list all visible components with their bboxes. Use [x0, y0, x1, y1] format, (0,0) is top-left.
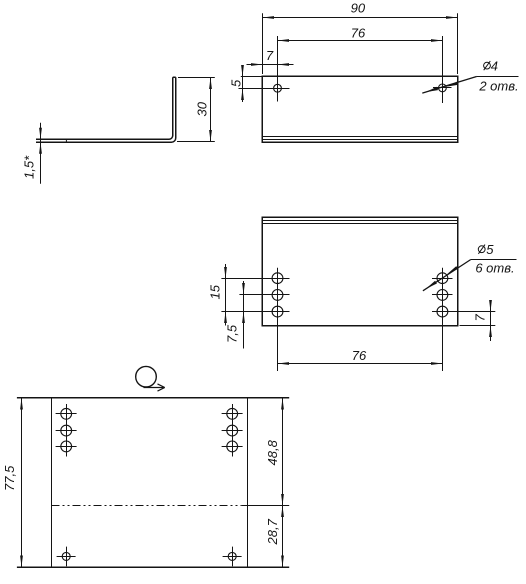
- dimension 77,5 arrow up: [20, 398, 23, 410]
- leader d4 arrow at end: [426, 87, 439, 92]
- hole right d4: [439, 84, 447, 92]
- svg-text:76: 76: [351, 26, 366, 41]
- hole left row2 d5: [272, 290, 283, 301]
- flat left col row2 centerline horizontal: [56, 430, 77, 432]
- dimension 77,5 arrow down: [20, 556, 23, 568]
- dimension 7 line: [247, 64, 294, 66]
- right row1 centerline horizontal: [432, 278, 453, 280]
- dimension 76 arrow right bottom: [431, 362, 443, 365]
- dimension 76 arrow left: [278, 39, 290, 42]
- leader d5 line: [423, 260, 471, 291]
- flat bottom left crosshair: [57, 547, 76, 567]
- left column centerline vertical: [277, 268, 279, 371]
- flat bottom right crosshair: [223, 547, 242, 567]
- leader d4 line: [422, 77, 476, 94]
- svg-text:30: 30: [195, 101, 210, 116]
- svg-text:4: 4: [491, 59, 498, 74]
- hole left centerline vertical: [277, 36, 279, 102]
- dimension 5 arrow down: [241, 65, 244, 77]
- dimension 15 line: [225, 264, 227, 326]
- flat hole left col row1 d5: [61, 408, 72, 419]
- strip joint tick: [65, 139, 67, 142]
- leader d5 arrow at hole: [447, 266, 458, 274]
- hole right row2 d5: [437, 290, 448, 301]
- leader d4 arrow at hole: [446, 82, 459, 87]
- svg-text:28,7: 28,7: [265, 518, 280, 545]
- dimension 5 line: [242, 67, 244, 102]
- dimension 5 arrow up: [241, 89, 244, 101]
- flat bottom edge: [17, 566, 289, 568]
- flat left col row1 centerline horizontal: [56, 413, 77, 415]
- dimension 7 line right: [490, 300, 492, 341]
- hole right row1 d5: [437, 273, 448, 284]
- fold phantom line: [52, 505, 242, 507]
- svg-text:6 отв.: 6 отв.: [475, 261, 514, 276]
- left row1 centerline horizontal: [221, 278, 289, 280]
- hole left row1 d5: [272, 273, 283, 284]
- dimension 7 extension bottom right: [460, 325, 496, 327]
- hole right centerline horizontal: [433, 87, 452, 89]
- flat top edge: [17, 397, 289, 399]
- svg-text:5: 5: [229, 79, 244, 87]
- dimension 7,5 arrow up: [242, 312, 245, 324]
- flat right col row3 centerline horizontal: [222, 446, 243, 448]
- svg-text:76: 76: [352, 348, 367, 363]
- top view plate outline: [262, 76, 458, 142]
- svg-text:90: 90: [351, 1, 366, 16]
- flat left edge dimension 77,5 line: [21, 398, 23, 568]
- svg-text:7: 7: [266, 48, 274, 63]
- leader d5 shelf: [471, 259, 517, 261]
- dimension 1,5* line: [40, 123, 42, 184]
- dimension 1,5* arrow down: [39, 128, 42, 140]
- right row2 centerline horizontal: [432, 294, 453, 296]
- flat right col centerline vertical: [232, 404, 234, 457]
- dimension 15 arrow down: [224, 267, 227, 279]
- flat left col row3 centerline horizontal: [56, 446, 77, 448]
- dimension 30 arrow up: [209, 78, 212, 90]
- dimension 90 line: [263, 17, 458, 19]
- dimension 90 extension right: [457, 13, 459, 74]
- side view L-profile outline: [36, 77, 176, 142]
- label d4 diameter symbol: [484, 62, 491, 69]
- flat hole right col row3 d5: [227, 441, 238, 452]
- flat bend line right: [247, 398, 249, 568]
- flat right col row1 centerline horizontal: [222, 413, 243, 415]
- flat hole right col row1 d5: [227, 408, 238, 419]
- dimension 90 arrow left: [263, 16, 275, 19]
- dimension 7,5 arrow down: [242, 283, 245, 295]
- svg-text:2 отв.: 2 отв.: [478, 78, 518, 93]
- flat hole left col row2 d5: [61, 425, 72, 436]
- dimension 76 arrow left bottom: [278, 362, 290, 365]
- unfold symbol arrow: [144, 384, 165, 391]
- dimension 90 arrow right: [446, 16, 458, 19]
- svg-text:1,5*: 1,5*: [22, 155, 37, 179]
- dimension 7 arrow up right: [489, 326, 492, 338]
- hole left d4: [274, 84, 282, 92]
- dimension 30 extension top: [178, 77, 215, 79]
- dimension 7 arrow left-pointing: [278, 63, 290, 66]
- dimension 28,7 arrow down: [281, 556, 284, 568]
- middle view bend line upper: [262, 220, 457, 222]
- flat hole right col row2 d5: [227, 425, 238, 436]
- dimension 30 line: [210, 78, 212, 142]
- dimension 5 extension top: [241, 76, 262, 78]
- dimension 90 extension left: [262, 13, 264, 74]
- middle view plate outline: [262, 217, 458, 326]
- left row3 centerline horizontal: [221, 311, 289, 313]
- svg-text:15: 15: [208, 284, 223, 299]
- right row3 centerline horizontal: [432, 311, 495, 313]
- dimension 48,8 28,7 line: [282, 398, 284, 568]
- dimension 30 extension bottom: [177, 141, 215, 143]
- dimension 1,5* arrow up: [39, 142, 42, 154]
- dimension 15 arrow up: [224, 312, 227, 324]
- flat hole bottom right d4: [228, 552, 236, 560]
- leader d4 shelf: [477, 76, 519, 78]
- top view bend line lower: [262, 139, 457, 141]
- label d5 diameter slash: [478, 245, 485, 254]
- hole right centerline vertical: [442, 36, 444, 103]
- dimension 7,5 line: [243, 281, 245, 349]
- svg-text:7: 7: [473, 314, 488, 322]
- flat hole bottom left d4: [62, 552, 70, 560]
- flat right col row2 centerline horizontal: [222, 430, 243, 432]
- label d4 diameter slash: [484, 61, 491, 70]
- unfold symbol circle: [136, 366, 157, 387]
- hole left row3 d5: [272, 306, 283, 317]
- dimension 28,7 arrow up: [281, 506, 284, 518]
- flat left col centerline vertical: [66, 404, 68, 457]
- dimension 76 arrow right: [431, 39, 443, 42]
- dimension 48,8 arrow down: [281, 494, 284, 506]
- dimension 30 arrow down: [209, 130, 212, 142]
- svg-text:7,5: 7,5: [225, 324, 240, 343]
- right column centerline vertical: [442, 268, 444, 371]
- left row2 centerline horizontal: [239, 294, 289, 296]
- dimension 76 line: [278, 40, 443, 42]
- leader d5 arrow at end: [426, 281, 437, 289]
- svg-text:48,8: 48,8: [265, 439, 280, 465]
- middle view bend line lower: [262, 223, 457, 225]
- label d5 diameter symbol: [478, 246, 485, 253]
- svg-text:77,5: 77,5: [2, 465, 17, 491]
- dimension 76 line bottom: [278, 363, 443, 365]
- svg-text:5: 5: [486, 242, 494, 257]
- flat hole left col row3 d5: [61, 441, 72, 452]
- hole right row3 d5: [437, 306, 448, 317]
- dimension 7 arrow down right: [489, 300, 492, 312]
- dimension 7 arrow right-pointing: [251, 63, 263, 66]
- fold extension line: [242, 505, 290, 507]
- flat bend line left: [51, 398, 53, 568]
- hole left centerline horizontal: [239, 88, 290, 90]
- dimension 48,8 arrow up: [281, 398, 284, 410]
- top view bend line upper: [262, 136, 457, 138]
